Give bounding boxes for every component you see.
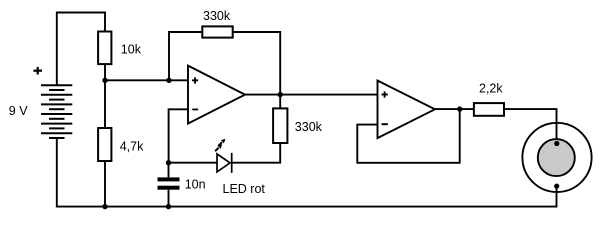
op-amp U1 bbox=[188, 66, 245, 124]
wire feedback riser and top run through R3 bbox=[169, 32, 280, 95]
junction node rail R2 bbox=[102, 204, 107, 209]
op-amp U2 bbox=[378, 81, 435, 139]
battery BT1 9V bbox=[41, 85, 72, 138]
resistor R3 330k top bbox=[202, 26, 232, 37]
wire R2 bottom to ground rail bbox=[104, 162, 106, 207]
wire battery plus to R1 top bbox=[57, 13, 105, 86]
wire op-amp2 output to R5 bbox=[435, 108, 473, 110]
op-amp U2 plus input mark bbox=[382, 91, 388, 97]
svg-text:330k: 330k bbox=[203, 9, 231, 23]
junction node op-amp2 output bbox=[457, 106, 462, 111]
wire op-amp2 feedback loop bbox=[357, 109, 459, 163]
op-amp U1 plus input mark bbox=[192, 77, 198, 83]
svg-text:9 V: 9 V bbox=[9, 104, 28, 118]
op-amp U2 minus input mark bbox=[382, 123, 388, 125]
label 2,2k bbox=[479, 82, 503, 96]
resistor R5 2,2k bbox=[474, 103, 504, 116]
junction node rail cap bbox=[166, 204, 171, 209]
wire output node down through R4 to LED run bbox=[232, 95, 281, 163]
resistor R1 10k bbox=[98, 32, 111, 65]
wire R5 to speaker top bbox=[505, 109, 557, 143]
resistor R2 4,7k bbox=[98, 128, 111, 161]
svg-text:4,7k: 4,7k bbox=[120, 140, 144, 154]
wire divider node to op-amp1 plus input bbox=[105, 79, 188, 81]
svg-text:10n: 10n bbox=[185, 178, 206, 192]
wire cap node to LED anode bbox=[169, 162, 218, 164]
wire op-amp1 output to op-amp2 plus input bbox=[245, 94, 378, 96]
junction node divider-R1 bbox=[102, 78, 107, 83]
label 9 V bbox=[9, 104, 28, 118]
capacitor C1 10n leads bbox=[168, 163, 170, 207]
svg-text:LED rot: LED rot bbox=[223, 182, 266, 196]
wire op-amp1 minus input loop to cap node bbox=[169, 109, 188, 162]
speaker terminal bottom bbox=[554, 184, 559, 189]
label 330k top bbox=[203, 9, 231, 23]
svg-text:2,2k: 2,2k bbox=[479, 82, 503, 96]
junction node cap LED minus bbox=[166, 160, 171, 165]
label 4,7k bbox=[120, 140, 144, 154]
junction node op-amp1 output bbox=[278, 92, 283, 97]
op-amp U1 minus input mark bbox=[192, 108, 198, 110]
LED D1 light arrows bbox=[215, 142, 222, 151]
svg-text:330k: 330k bbox=[295, 120, 323, 134]
svg-text:10k: 10k bbox=[121, 42, 142, 56]
label 10k bbox=[121, 42, 142, 56]
resistor R4 330k vertical bbox=[273, 108, 287, 143]
wire R1 bottom to R2 top bbox=[104, 65, 106, 127]
label LED rot bbox=[223, 182, 266, 196]
junction node op-amp1 plus feedback bbox=[166, 78, 171, 83]
battery plus sign bbox=[33, 67, 42, 75]
wire battery minus down and bottom rail to speaker bbox=[57, 138, 557, 207]
label 330k right bbox=[295, 120, 323, 134]
label 10n bbox=[185, 178, 206, 192]
speaker LS1 inner disc bbox=[538, 139, 575, 176]
speaker LS1 outer circle bbox=[522, 123, 591, 192]
capacitor C1 10n plates bbox=[158, 177, 180, 189]
LED D1 bbox=[217, 153, 232, 173]
speaker terminal top bbox=[554, 141, 559, 146]
